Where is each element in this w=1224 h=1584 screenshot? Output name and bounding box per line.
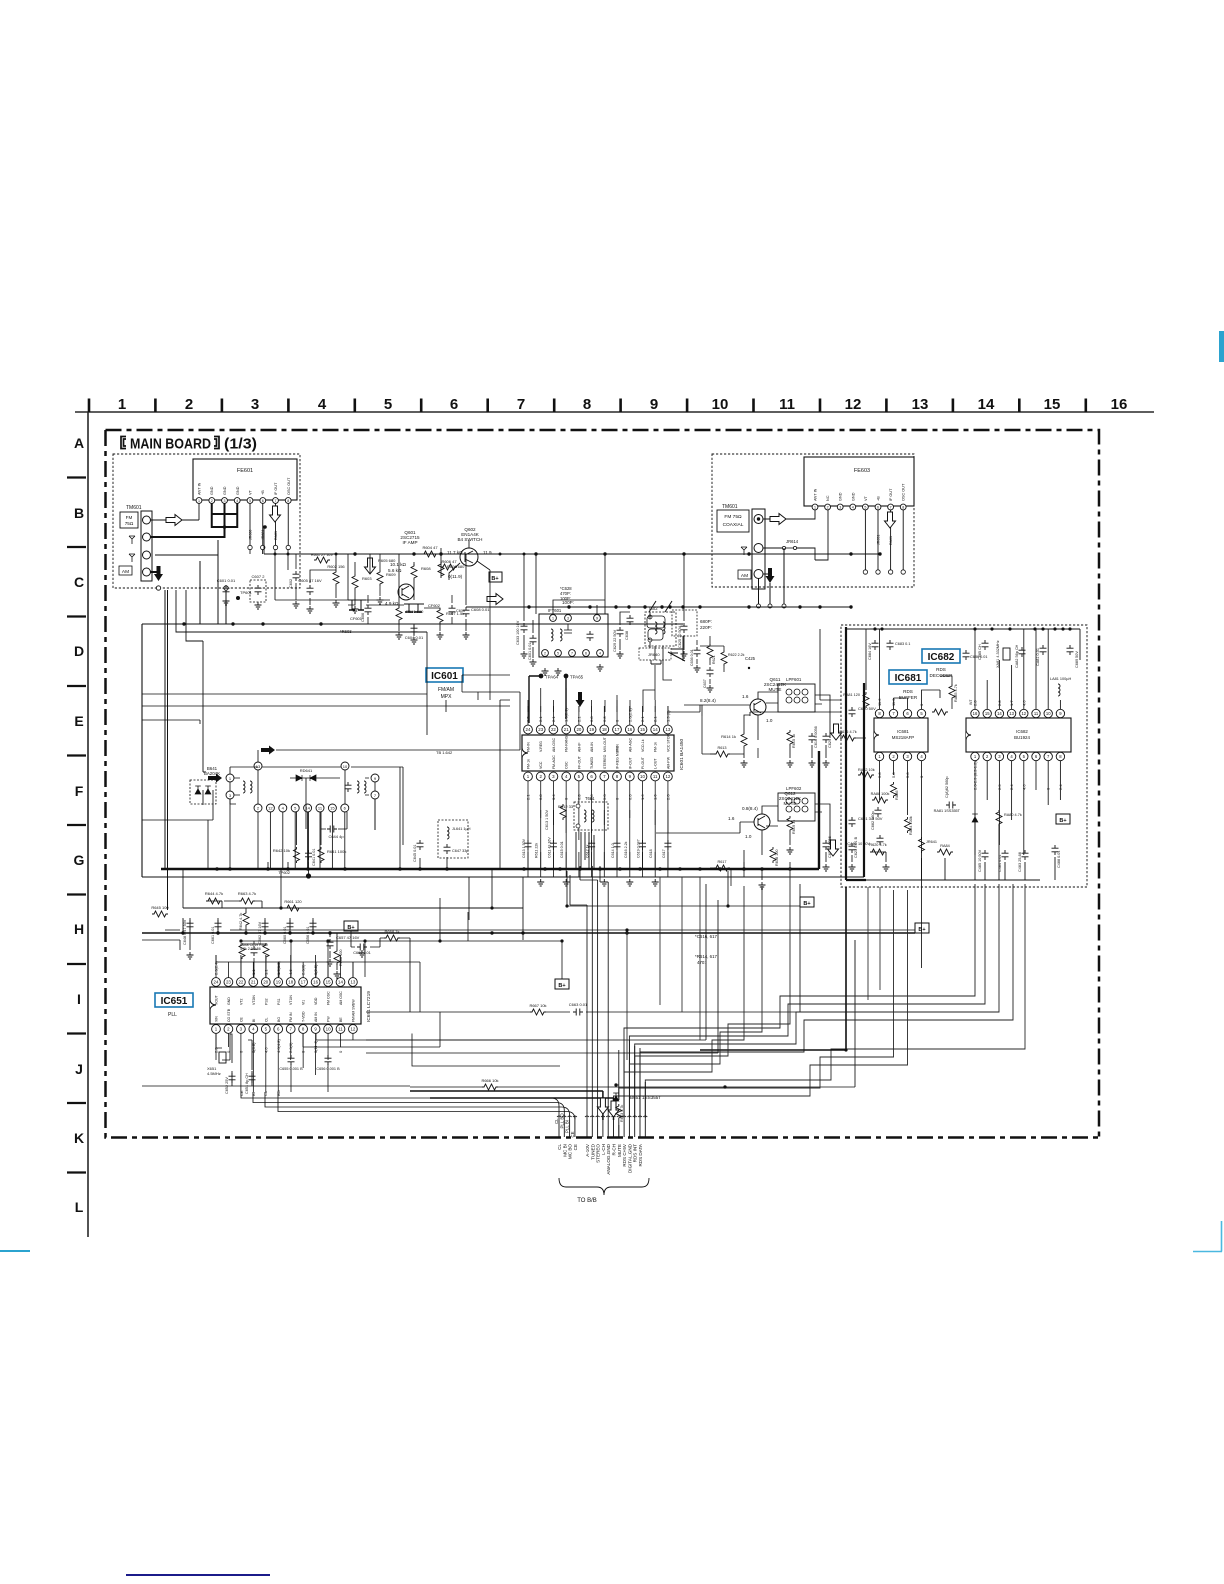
svg-text:13: 13 (350, 980, 355, 985)
svg-text:*R603: *R603 (340, 629, 352, 634)
svg-text:AM-PW: AM-PW (666, 756, 670, 769)
svg-text:20: 20 (576, 727, 581, 732)
svg-text:C661 0.01: C661 0.01 (211, 926, 215, 944)
FE603 front-end module dotted enclosure (712, 454, 914, 587)
svg-text:JR640: JR640 (648, 652, 660, 657)
svg-text:B: B (74, 505, 84, 521)
IC681 body (874, 709, 928, 760)
IC601 bottom pin wires (528, 781, 668, 840)
C686 0.01 (963, 650, 970, 660)
R601 resistor (314, 557, 330, 563)
R661 120 (285, 905, 301, 911)
svg-text:FM-IN: FM-IN (527, 742, 531, 752)
svg-text:IC682: IC682 (1016, 729, 1028, 734)
wires pins13-16 IC601 to T602 (605, 690, 655, 712)
R602 resistor (333, 570, 339, 586)
svg-text:220P:: 220P: (700, 625, 712, 630)
svg-text:B4 SWITCH: B4 SWITCH (457, 537, 482, 542)
R617 R618 (714, 751, 730, 757)
svg-text:JL641 1µH: JL641 1µH (452, 827, 471, 831)
svg-text:6: 6 (262, 499, 264, 503)
svg-text:C629 22 50V: C629 22 50V (613, 629, 617, 652)
svg-text:CO STB: CO STB (227, 1008, 231, 1022)
svg-text:H: H (74, 921, 84, 937)
svg-text:10: 10 (326, 1027, 331, 1032)
svg-text:7: 7 (571, 651, 573, 655)
svg-text:MAIN BOARD: MAIN BOARD (130, 436, 211, 453)
svg-text:FM OSC: FM OSC (327, 991, 331, 1005)
C610 cap (449, 605, 456, 615)
svg-text:C637: C637 (703, 679, 707, 688)
svg-text:R642 4.7k: R642 4.7k (239, 913, 243, 930)
R607 1.5k (437, 608, 443, 624)
dots y607 (527, 605, 530, 608)
svg-text:10: 10 (1046, 711, 1051, 716)
svg-text:7: 7 (517, 396, 525, 413)
svg-text:J: J (75, 1061, 83, 1077)
svg-text:5: 5 (864, 505, 866, 509)
capacitor C612 (550, 840, 557, 850)
connector feed verticals (559, 866, 645, 1120)
T601 wire bundle to bus (576, 832, 594, 869)
svg-text:IC681: IC681 (895, 673, 922, 684)
svg-text:6: 6 (877, 505, 879, 509)
svg-text:16: 16 (1111, 396, 1128, 413)
wire to B+ right (567, 871, 800, 906)
svg-text:IF AMP: IF AMP (402, 540, 417, 545)
svg-text:8: 8 (287, 499, 289, 503)
svg-text:C601 0.01: C601 0.01 (528, 642, 532, 660)
staircase wire s5 (645, 884, 1025, 1118)
grounds under comb (537, 879, 544, 886)
svg-text:RA82 10k: RA82 10k (858, 768, 875, 772)
svg-text:GND: GND (851, 492, 855, 501)
svg-text:VT1IN: VT1IN (289, 995, 293, 1005)
title MAIN BOARD (1/3) (121, 436, 257, 453)
B+ box right (row H) (800, 897, 814, 907)
grounds IF area (307, 606, 314, 613)
svg-text:15: 15 (985, 711, 990, 716)
svg-text:15: 15 (330, 805, 335, 810)
bus line J2 (366, 884, 706, 1040)
svg-text:BI: BI (252, 1019, 256, 1022)
svg-text:MC BI: MC BI (562, 1144, 567, 1157)
svg-text:CA81 0.01: CA81 0.01 (1036, 648, 1040, 666)
svg-text:BUFFER: BUFFER (899, 695, 918, 700)
svg-text:INT: INT (969, 700, 973, 705)
outline down arrow FE601 pin7 (270, 506, 281, 522)
T641 wires (230, 729, 520, 876)
bold vertical into RDS (863, 683, 865, 877)
svg-text:1.0: 1.0 (745, 834, 752, 839)
svg-text:VT: VT (249, 489, 253, 495)
Q602 band switch transistor (457, 527, 482, 566)
top rail junction dots (873, 627, 876, 630)
extra staircase wires s8 s9 s10 (624, 886, 744, 1090)
main +B horizontal line row C (264, 553, 880, 555)
IC601 top pin wires (528, 688, 668, 725)
outline down arrows right (831, 724, 842, 740)
svg-text:5: 5 (384, 396, 392, 413)
svg-text:B+: B+ (1059, 818, 1066, 824)
R667 bus line (366, 884, 800, 1012)
svg-text:R666 10k: R666 10k (481, 1078, 498, 1083)
svg-text:IC601 BA1450: IC601 BA1450 (679, 738, 685, 770)
svg-text:R622 2.2k: R622 2.2k (728, 653, 745, 657)
T602 inner bubbles (647, 616, 665, 628)
svg-text:DIGITAL.GND: DIGITAL.GND (627, 1143, 632, 1173)
svg-text:R621: R621 (712, 655, 716, 664)
svg-text:CE: CE (570, 1131, 575, 1137)
X651 crystal (216, 1034, 230, 1060)
svg-text:C483 25-68: C483 25-68 (1018, 852, 1022, 872)
C607 dashed cap (250, 580, 266, 602)
svg-text:RA80 4.7k: RA80 4.7k (1004, 813, 1022, 817)
svg-text:C652 25V: C652 25V (225, 1077, 229, 1094)
svg-text:4.7k 2.2 0.56: 4.7k 2.2 0.56 (240, 947, 261, 951)
C656 0.01 (310, 920, 317, 930)
svg-text:I: I (77, 991, 81, 1007)
TM601 coaxial terminal (right) (717, 504, 765, 589)
AM antenna filled down arrow (154, 566, 163, 581)
long row H-J verticals (627, 877, 700, 1060)
svg-text:OSC OUT: OSC OUT (287, 477, 291, 495)
svg-text:GND: GND (223, 486, 227, 495)
svg-text:2: 2 (827, 505, 829, 509)
R(A)80 4.7k (996, 810, 1002, 826)
svg-text:7: 7 (890, 505, 892, 509)
wires cluster (697, 636, 724, 684)
svg-text:R661 120: R661 120 (284, 899, 302, 904)
*R603 star wire down (348, 554, 390, 600)
svg-text:TP602: TP602 (278, 870, 291, 875)
svg-text:G: G (74, 852, 85, 868)
svg-text:IC681: IC681 (897, 729, 909, 734)
IC651 body (210, 978, 361, 1034)
svg-text:C641 0.01: C641 0.01 (312, 848, 316, 866)
R642b 4.7k (243, 911, 249, 927)
svg-text:RDS: RDS (903, 689, 913, 694)
row E horizontal from IC601 pins to Q611 (668, 705, 700, 712)
svg-text:C683 0.1: C683 0.1 (895, 642, 910, 646)
IC601 body (522, 725, 674, 781)
svg-text:OSC OUT: OSC OUT (902, 483, 906, 501)
svg-text:IC682: IC682 (928, 652, 955, 663)
R668 1k (384, 935, 400, 941)
RDS top rail (846, 629, 1080, 660)
svg-text:VDD: VDD (314, 997, 318, 1005)
svg-text:3: 3 (567, 616, 569, 620)
svg-text:TP601: TP601 (240, 590, 253, 595)
bus line J3 (366, 900, 718, 1053)
FE603 front-end block (804, 457, 914, 510)
C605 cap (307, 585, 314, 595)
svg-text:14: 14 (997, 711, 1002, 716)
svg-text:20: 20 (263, 980, 268, 985)
svg-text:RA86: RA86 (895, 791, 899, 801)
staircase wire s2 (629, 884, 985, 1118)
svg-text:C657 47 16V: C657 47 16V (336, 935, 360, 940)
svg-text:100P:: 100P: (562, 600, 574, 605)
RA82 10k (858, 772, 874, 778)
left rail bundle (165, 540, 226, 910)
svg-text:GND: GND (210, 486, 214, 495)
svg-text:C624: C624 (828, 739, 832, 748)
bold ground wires FE601 pins 2-4 (151, 504, 238, 538)
svg-text:8: 8 (583, 396, 591, 413)
extra junction dots rows C-D (263, 526, 266, 529)
svg-text:VT: VT (864, 495, 868, 501)
IFT601 transformer (539, 608, 608, 657)
wires below right coax (759, 548, 785, 605)
capacitor C615 (588, 840, 595, 850)
RA88 100k (872, 797, 888, 803)
svg-text:RA81 1SS355T: RA81 1SS355T (934, 809, 961, 813)
outline down arrows L-CH R-CH (597, 1098, 608, 1114)
T601 dashed transformer (574, 796, 608, 830)
blue line left edge (0, 1250, 30, 1252)
svg-text:AM-OSC: AM-OSC (552, 738, 556, 752)
bent pill labels CL PLL BO PLL BI CE (350, 1098, 559, 1116)
svg-text:4: 4 (236, 499, 238, 503)
vertical lines right of IC601 to RDS left exit (750, 629, 820, 716)
svg-text:12: 12 (665, 774, 670, 779)
svg-text:FM 75Ω: FM 75Ω (724, 514, 742, 520)
thicker FE601 gnd node (212, 510, 237, 527)
svg-text:RA84: RA84 (940, 844, 950, 848)
C606 cap (365, 605, 372, 615)
staircase wire s6 (619, 890, 894, 1100)
IC601 bottom pin wires extended to ground bus (528, 810, 668, 869)
CF601 ceramic filter (348, 600, 366, 621)
svg-text:BO: BO (276, 1090, 281, 1096)
svg-text:T601: T601 (585, 796, 595, 801)
svg-text:C616 2.2k: C616 2.2k (624, 841, 628, 858)
tuning diagonals (649, 601, 685, 661)
JR640 to C625 wires (651, 636, 683, 664)
svg-text:6: 6 (585, 651, 587, 655)
svg-text:IFT601: IFT601 (548, 608, 562, 613)
svg-text:K: K (74, 1130, 84, 1146)
comb verticals across ground bus under IC601 (528, 852, 668, 877)
svg-text:C684 16V: C684 16V (868, 643, 872, 660)
block arrow FE603 ant (770, 514, 786, 525)
svg-text:AM-IF: AM-IF (577, 742, 581, 752)
svg-text:BO: BO (277, 1017, 281, 1022)
svg-text:GND: GND (227, 997, 231, 1005)
C601 cap (223, 585, 230, 595)
svg-text:FF-OUT: FF-OUT (577, 755, 581, 769)
C689 cap (1067, 645, 1074, 655)
svg-text:C645 0.01: C645 0.01 (413, 844, 417, 862)
B+ box H row (344, 921, 358, 931)
svg-text:R612 33: R612 33 (558, 804, 574, 809)
svg-text:R619 1k: R619 1k (792, 820, 796, 834)
svg-text:OSC: OSC (565, 761, 569, 769)
svg-text:13: 13 (256, 764, 261, 769)
svg-text:C617: C617 (662, 849, 666, 858)
R642 C641 R641 row (294, 847, 300, 863)
svg-text:FM-AGC: FM-AGC (552, 755, 556, 769)
svg-text:RA88 100k: RA88 100k (871, 792, 890, 796)
filled down arrow pin20 (576, 692, 585, 707)
IC682 blue label (922, 649, 960, 663)
svg-text:12: 12 (268, 805, 273, 810)
svg-text:V-REG: V-REG (539, 741, 543, 752)
wire TM601 AM circle4 (151, 571, 159, 573)
svg-text:STEREO: STEREO (596, 1144, 601, 1163)
svg-text:R615 1k: R615 1k (792, 734, 796, 748)
svg-text:NC: NC (826, 495, 830, 501)
svg-text:C425: C425 (745, 656, 756, 661)
R688 100 (334, 949, 340, 965)
left ruler ticks (67, 478, 86, 1173)
R644 4.7k (206, 898, 222, 904)
svg-text:1.6: 1.6 (728, 816, 735, 821)
svg-text:RA81 120: RA81 120 (843, 693, 860, 697)
svg-text:VT2IN: VT2IN (252, 995, 256, 1005)
svg-text:R609: R609 (386, 572, 396, 577)
svg-text:CE: CE (239, 1090, 244, 1096)
svg-text:R605 680: R605 680 (378, 558, 396, 563)
svg-text:GND: GND (236, 486, 240, 495)
svg-text:1: 1 (552, 616, 554, 620)
svg-text:(1/3): (1/3) (224, 436, 257, 453)
svg-text:B+: B+ (558, 983, 565, 989)
svg-text:CE: CE (573, 1144, 578, 1150)
svg-text:BI: BI (251, 1092, 256, 1096)
svg-text:C689 50V: C689 50V (1075, 651, 1079, 668)
RDS bottom bus (866, 822, 1055, 880)
svg-text:L-OUT: L-OUT (654, 758, 658, 769)
svg-text:0.8(8.4): 0.8(8.4) (742, 806, 758, 811)
C657 47 16V (327, 939, 334, 949)
svg-text:GND: GND (839, 492, 843, 501)
svg-text:CE: CE (239, 1016, 243, 1022)
IC651 pins to pill wires (241, 1092, 350, 1112)
svg-text:0: 0 (338, 1050, 343, 1053)
block arrow mid row C (487, 594, 503, 605)
svg-text:17: 17 (301, 980, 306, 985)
svg-text:C485 10 50V: C485 10 50V (978, 849, 982, 872)
TM601 FM/AM antenna terminal (119, 505, 152, 581)
blue corner mark bottom right (1193, 1221, 1222, 1252)
IC601 blue label (426, 668, 463, 682)
C644 4p (327, 826, 337, 833)
IC681 blue label (889, 670, 927, 684)
svg-text:10: 10 (640, 774, 645, 779)
junction dot TM601 gnd (263, 525, 267, 529)
RDS bold feed line (846, 627, 866, 880)
svg-text:R611 22k: R611 22k (535, 843, 539, 858)
svg-text:L-CH: L-CH (601, 1144, 606, 1155)
svg-text:AM OSC: AM OSC (339, 991, 343, 1005)
Q611 collector drop wires (702, 716, 758, 886)
outline down arrow FE603 pin7 (885, 512, 896, 528)
svg-text:18: 18 (288, 980, 293, 985)
dots on y624 (182, 622, 185, 625)
R614 resistor (741, 732, 747, 748)
staircase wire s3 (635, 884, 999, 1118)
svg-text:R616 4.7k: R616 4.7k (839, 730, 856, 734)
svg-text:C613 1 50V: C613 1 50V (545, 809, 549, 830)
long line to far right B+ (165, 929, 915, 931)
CA81 10 50V (877, 835, 884, 845)
C652 C651 caps (229, 1073, 236, 1083)
wire TM601 to FE601 pin1 (151, 504, 200, 521)
svg-text:JR651: JR651 (877, 535, 881, 545)
R605 outline down arrow (365, 558, 376, 574)
svg-text:JR641: JR641 (926, 840, 937, 844)
C648 electrolytic (187, 920, 194, 930)
C682 560p (875, 807, 882, 817)
svg-text:1: 1 (814, 505, 816, 509)
svg-text:RA84 100k: RA84 100k (909, 816, 913, 835)
svg-text:22: 22 (551, 727, 556, 732)
FE601 front-end block (193, 459, 297, 503)
bottom caps row in RDS box (982, 850, 989, 860)
RDS dotted enclosure (841, 625, 1087, 887)
L-CH R-CH bold feeds (410, 1091, 614, 1120)
main feed line row H y933 (142, 932, 915, 934)
svg-text:6: 6 (450, 396, 458, 413)
IC651 bottom pin wires (216, 1034, 353, 1093)
svg-text:RA85 4.7k: RA85 4.7k (954, 684, 958, 702)
svg-text:C616 0.0056: C616 0.0056 (814, 726, 818, 748)
FE601 pin stub continuations (250, 550, 348, 600)
B+ box RDS (1056, 814, 1070, 824)
svg-text:CL: CL (554, 1118, 559, 1124)
svg-text:AM IN: AM IN (314, 1012, 318, 1022)
svg-text:E: E (74, 713, 83, 729)
svg-text:8.2(8.4): 8.2(8.4) (700, 698, 716, 703)
svg-text:15: 15 (640, 727, 645, 732)
C668 0.01 (357, 944, 367, 951)
svg-text:B+: B+ (918, 927, 925, 933)
svg-text:JR680: JR680 (249, 530, 253, 540)
svg-text:C636 0.01: C636 0.01 (690, 649, 694, 666)
svg-text:C682 560p: C682 560p (871, 811, 875, 830)
filled right arrow upper (261, 746, 275, 755)
svg-text:B651 1SS355T: B651 1SS355T (630, 1095, 661, 1100)
svg-text:F: F (75, 783, 84, 799)
LA81 coil (1058, 684, 1060, 696)
svg-text:C615 0.01: C615 0.01 (560, 841, 564, 858)
svg-text:22: 22 (238, 980, 243, 985)
svg-text:16: 16 (313, 980, 318, 985)
svg-text:FM: FM (126, 515, 133, 520)
svg-text:AM: AM (122, 569, 129, 575)
R603 (352, 574, 358, 590)
svg-text:MUTE: MUTE (617, 1144, 622, 1157)
svg-text:PS1: PS1 (277, 998, 281, 1005)
svg-text:R645 100: R645 100 (151, 905, 169, 910)
more verticals from T602 area down (650, 646, 672, 700)
svg-text:C620 50V: C620 50V (858, 706, 876, 711)
C661 0.01 (215, 920, 222, 930)
R604 resistor (422, 551, 438, 557)
left area wires rows E-F (142, 632, 427, 869)
IC682 body (966, 709, 1071, 760)
R606A 680 (438, 562, 444, 578)
C685 CH cap (982, 640, 989, 650)
RA81 1SS355T diode (972, 814, 978, 822)
R645 100 (152, 911, 168, 917)
svg-text:MUTE: MUTE (768, 687, 781, 692)
svg-text:A: A (74, 435, 84, 451)
IC681 top wires (880, 629, 941, 709)
svg-text:TPA64: TPA64 (545, 675, 559, 680)
